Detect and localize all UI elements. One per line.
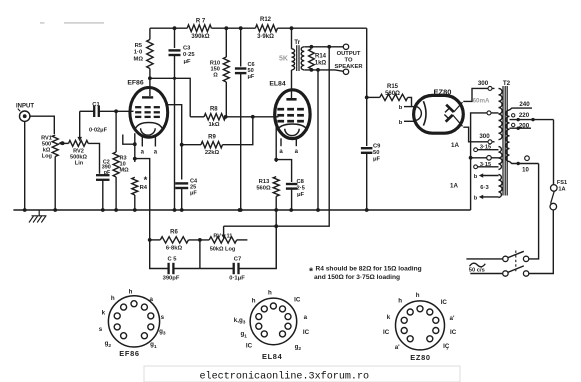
EZ80 anode (lower): [446, 115, 453, 122]
svg-text:C7: C7: [234, 257, 241, 263]
svg-text:h: h: [111, 295, 115, 302]
svg-text:IÇ: IÇ: [443, 343, 450, 350]
svg-text:R5: R5: [135, 43, 143, 49]
rail continues: [211, 27, 255, 29]
potentiometer RV1: [52, 135, 58, 157]
potentiometer RV2: [63, 142, 69, 144]
EF86 bottom pins: [123, 135, 135, 145]
svg-text:50: 50: [373, 150, 379, 156]
svg-text:IC: IC: [246, 342, 253, 349]
input jack J1: [20, 111, 30, 121]
EZ80 heater arc: [414, 106, 421, 120]
svg-text:5K: 5K: [279, 56, 288, 63]
resistor R9 22k: [182, 144, 201, 146]
svg-text:R15: R15: [387, 84, 399, 90]
svg-text:b: b: [399, 105, 403, 111]
svg-text:a: a: [141, 150, 145, 156]
svg-text:Log: Log: [42, 154, 53, 160]
svg-text:T2: T2: [503, 80, 511, 87]
feedback line to OPT secondary: [224, 47, 330, 226]
svg-text:390pF: 390pF: [163, 275, 180, 281]
mains supply label 50 c/s: [470, 263, 486, 267]
svg-text:TO: TO: [345, 58, 353, 64]
EL84 base diagram: [250, 298, 297, 345]
svg-text:Ω: Ω: [213, 73, 218, 79]
svg-text:h: h: [129, 288, 133, 295]
wire EF86 grid into tube: [116, 110, 133, 112]
resistor R15 560: [367, 96, 380, 98]
svg-text:1·0: 1·0: [134, 50, 142, 56]
svg-text:Tr: Tr: [294, 39, 300, 46]
svg-text:0·1μF: 0·1μF: [229, 275, 245, 281]
RV1 wiper arrow: [60, 142, 63, 144]
svg-text:300: 300: [478, 80, 489, 87]
svg-text:a: a: [295, 149, 299, 155]
svg-text:22kΩ: 22kΩ: [205, 150, 220, 156]
svg-text:MΩ: MΩ: [134, 57, 144, 63]
ground bus: [13, 209, 470, 211]
svg-text:C1: C1: [92, 102, 100, 108]
EZ80 heater leads b,b: [404, 106, 414, 108]
svg-text:1A: 1A: [450, 182, 458, 189]
EL84 cathode to feedback line stub: [275, 210, 277, 269]
svg-text:a': a': [395, 344, 400, 351]
RV2 wiper to C1: [79, 111, 81, 138]
svg-text:h: h: [398, 298, 402, 305]
output terminal (top): [343, 44, 348, 49]
EL84 anode bar: [286, 98, 296, 101]
svg-text:220: 220: [519, 112, 530, 119]
svg-text:200: 200: [519, 122, 530, 129]
fuse FS1 1A: [551, 185, 558, 192]
wire EF86 anode to R8: [150, 78, 190, 117]
svg-text:electronicaonline.3xforum.ro: electronicaonline.3xforum.ro: [200, 371, 370, 382]
watermark bar: [144, 366, 460, 382]
svg-text:R6: R6: [170, 230, 178, 236]
svg-text:R4: R4: [140, 185, 148, 191]
svg-text:k,g3: k,g3: [234, 317, 246, 326]
svg-text:OUTPUT: OUTPUT: [337, 51, 361, 57]
HT centre tap to ground: [471, 113, 499, 210]
resistor R7 390k: [187, 25, 211, 32]
svg-text:kΩ: kΩ: [43, 147, 51, 153]
svg-text:a: a: [149, 296, 153, 303]
Tr primary coil: [290, 26, 294, 30]
switch gang (dashed): [515, 251, 517, 272]
Tr secondary coil: [301, 47, 304, 70]
capacitor C1 0-02uF: [80, 110, 95, 112]
mains switch pole 2: [470, 273, 502, 275]
svg-text:μF: μF: [248, 74, 255, 80]
svg-text:R4 should be 82Ω for 15Ω loadi: R4 should be 82Ω for 15Ω loading: [316, 266, 422, 273]
svg-text:560Ω: 560Ω: [256, 185, 271, 191]
mains wire 220-tap through fuse: [553, 120, 555, 185]
220V tap: [510, 119, 554, 121]
output terminal (bottom): [343, 69, 348, 74]
svg-text:390kΩ: 390kΩ: [191, 34, 209, 40]
svg-text:g1: g1: [150, 341, 157, 350]
svg-text:560Ω: 560Ω: [385, 91, 400, 97]
wire secondary bottom to ground: [317, 70, 319, 210]
EF86 top lead (anode): [149, 78, 151, 96]
svg-text:240: 240: [519, 101, 530, 108]
svg-text:g1: g1: [240, 331, 247, 340]
svg-text:50 c/s: 50 c/s: [469, 267, 485, 273]
svg-text:1A: 1A: [451, 142, 459, 149]
svg-text:EL84: EL84: [262, 352, 283, 361]
wire input jack to ground bus: [24, 121, 26, 210]
240V tap: [510, 108, 533, 110]
svg-text:b: b: [474, 196, 478, 202]
resistor R8 1k: [204, 114, 226, 120]
svg-text:R8: R8: [210, 107, 218, 113]
svg-text:11: 11: [227, 234, 233, 240]
capacitor C8 25uF: [276, 160, 291, 182]
svg-text:h: h: [416, 292, 420, 299]
mains switch (DPST) pole 1: [466, 258, 502, 260]
capacitor C5 390pF: [150, 240, 169, 269]
svg-text:50kΩ Log: 50kΩ Log: [210, 246, 236, 252]
svg-text:pF: pF: [104, 170, 111, 176]
svg-text:MΩ: MΩ: [120, 168, 130, 174]
resistor R4 (EF86 cathode bias): [132, 177, 138, 195]
T2 mains primary winding: [506, 110, 510, 162]
T2 rectifier heater winding 6.3V b-b: [499, 175, 503, 198]
svg-text:R14: R14: [315, 54, 327, 60]
svg-text:0·02μF: 0·02μF: [89, 128, 108, 134]
EL84 grid dashes: [277, 108, 284, 111]
svg-text:g3: g3: [159, 328, 166, 337]
svg-text:μF: μF: [184, 59, 192, 65]
potentiometer RV11 50k Log: [209, 237, 237, 243]
svg-text:s: s: [161, 314, 165, 321]
0V (10) tap: [510, 162, 539, 164]
svg-text:RV: RV: [213, 234, 221, 240]
wire RV2 end to C2: [88, 143, 99, 173]
secondary top wire to output terminal: [305, 46, 344, 48]
EZ80 cathode arc: [423, 101, 426, 125]
resistor R13 560 (EL84 cathode): [273, 177, 279, 197]
scan artifacts: [64, 22, 104, 24]
capacitor C2 390pF: [96, 174, 110, 176]
T2 HT secondary winding 300-0-300: [499, 88, 503, 139]
svg-text:R 7: R 7: [196, 19, 206, 25]
EL84 cathode arcs: [277, 124, 307, 131]
svg-text:g2: g2: [105, 340, 112, 349]
200V tap: [510, 127, 532, 129]
EZ80 anode (upper): [446, 105, 454, 112]
T2 6.3V heater winding (3.15+3.15) for amp tubes: [499, 147, 503, 170]
svg-text:R12: R12: [260, 17, 272, 23]
capacitor C6 50uF: [239, 26, 243, 30]
svg-text:g2: g2: [295, 344, 302, 353]
svg-text:s: s: [99, 326, 103, 333]
resistor R5 1M (anode load): [149, 28, 151, 39]
svg-text:300: 300: [479, 133, 490, 140]
EF86 cathode arcs: [135, 123, 162, 130]
EZ80 base diagram: [396, 301, 445, 350]
wire R8 to EL84 grid: [226, 116, 279, 118]
EF86 grid dashes: [135, 106, 141, 108]
resistor R10 150 (screen feed EL84?): [224, 26, 228, 30]
resistor R12 3-9k: [255, 25, 277, 32]
svg-text:IC: IC: [441, 299, 448, 306]
capacitor C4 25uF: [175, 182, 188, 184]
RV11 wiper: [223, 226, 225, 235]
svg-text:R13: R13: [259, 179, 270, 185]
svg-text:a': a': [450, 315, 455, 322]
EF86 base diagram: [108, 296, 159, 347]
svg-text:EF86: EF86: [119, 349, 139, 358]
svg-text:Lin: Lin: [75, 161, 84, 167]
svg-text:R9: R9: [208, 134, 216, 140]
node EF86 grid: [114, 109, 118, 113]
svg-text:EL84: EL84: [269, 80, 285, 87]
svg-text:a: a: [154, 150, 158, 156]
wire EF86 cathode to feedback network: [135, 159, 150, 240]
svg-text:IC: IC: [294, 296, 301, 303]
svg-text:3·15: 3·15: [480, 144, 491, 150]
svg-text:μF: μF: [373, 157, 381, 163]
resistor R3 10M: [115, 111, 117, 152]
EL84 bottom pins: [275, 127, 277, 163]
svg-text:b: b: [399, 120, 403, 126]
svg-text:EF86: EF86: [127, 80, 143, 87]
svg-text:2·5: 2·5: [297, 186, 306, 192]
svg-text:SPEAKER: SPEAKER: [334, 64, 363, 70]
svg-text:6·3: 6·3: [480, 185, 489, 191]
mains wire 0-tap to switch: [529, 164, 539, 259]
resistor R14 1k across secondary: [309, 49, 315, 69]
svg-text:b: b: [474, 174, 478, 180]
secondary bottom wire to output terminal: [305, 70, 344, 71]
EF86 anode bar: [142, 96, 153, 98]
svg-text:FS1: FS1: [557, 180, 567, 186]
svg-text:k: k: [387, 314, 391, 321]
svg-text:C8: C8: [297, 179, 305, 185]
svg-text:h: h: [252, 298, 256, 305]
capacitor C3 0-25uF (decoupling): [173, 26, 177, 30]
svg-text:C3: C3: [183, 46, 191, 52]
capacitor C9 50uF: [361, 147, 373, 149]
wire input to RV1: [30, 116, 54, 134]
EF86 screen stub to R9/C4: [167, 105, 182, 180]
feedback: resistor R6 6-8k: [148, 238, 152, 242]
svg-text:h: h: [268, 289, 272, 296]
svg-text:k: k: [102, 310, 106, 317]
svg-text:IC: IC: [383, 329, 390, 336]
Tr core: [296, 45, 298, 71]
svg-text:μF: μF: [190, 191, 197, 197]
svg-text:μF: μF: [297, 192, 305, 198]
ground symbol: [38, 210, 40, 216]
svg-text:3·15: 3·15: [480, 162, 491, 168]
EZ80 anode leads to T2 HT winding: [463, 88, 494, 101]
svg-text:IC: IC: [303, 329, 310, 336]
svg-text:EZ80: EZ80: [410, 353, 430, 362]
svg-text:INPUT: INPUT: [16, 104, 34, 110]
svg-text:3·9kΩ: 3·9kΩ: [257, 34, 274, 40]
svg-text:60mA: 60mA: [473, 98, 490, 105]
svg-text:1kΩ: 1kΩ: [208, 122, 219, 128]
svg-text:a: a: [304, 314, 308, 321]
EL84 anode to OPT primary: [291, 70, 293, 98]
svg-text:0·25: 0·25: [183, 52, 195, 58]
T2 core: [502, 86, 504, 196]
svg-text:IC: IC: [450, 329, 457, 336]
capacitor C7 0-1uF: [200, 268, 234, 270]
svg-text:C9: C9: [373, 144, 381, 150]
HT rail (top): [150, 27, 187, 29]
svg-text:1A: 1A: [558, 187, 565, 193]
svg-text:C 5: C 5: [167, 257, 177, 263]
svg-text:6·8kΩ: 6·8kΩ: [166, 245, 183, 251]
svg-text:1kΩ: 1kΩ: [315, 61, 327, 67]
svg-text:and 150Ω for 3·75Ω loading: and 150Ω for 3·75Ω loading: [314, 274, 400, 281]
svg-text:10: 10: [522, 168, 529, 174]
svg-text:a: a: [279, 149, 283, 155]
B+ from rectifier: corner down: [366, 28, 368, 146]
